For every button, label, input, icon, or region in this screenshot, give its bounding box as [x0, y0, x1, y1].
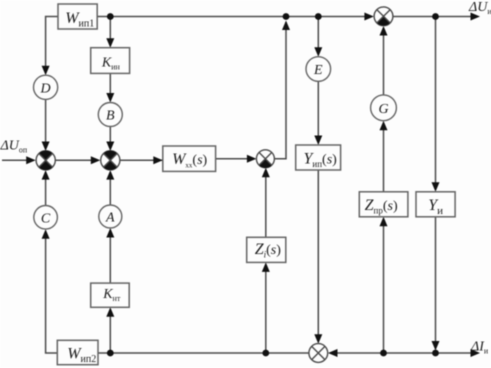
- svg-text:D: D: [40, 81, 51, 96]
- svg-text:C: C: [41, 211, 51, 226]
- svg-text:E: E: [313, 63, 323, 78]
- svg-text:B: B: [106, 109, 115, 124]
- svg-text:G: G: [378, 102, 388, 117]
- svg-text:A: A: [105, 211, 115, 226]
- svg-text:Zi(s): Zi(s): [255, 241, 282, 260]
